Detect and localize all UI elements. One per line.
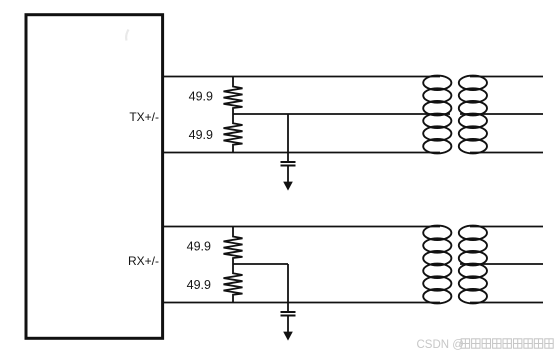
- resistor R4 49.9: [224, 264, 243, 303]
- wire RX junction: [233, 263, 288, 265]
- svg-text:49.9: 49.9: [187, 278, 211, 292]
- resistor R3 49.9: [224, 227, 243, 265]
- transformer T2 primary winding: [423, 226, 451, 304]
- svg-text:RX+/-: RX+/-: [128, 254, 159, 268]
- svg-text:49.9: 49.9: [189, 128, 213, 142]
- ground arrow (TX): [283, 167, 293, 191]
- transformer T1 primary winding: [423, 76, 451, 154]
- wire TX+ (top): [163, 76, 440, 78]
- resistor R2 49.9: [224, 114, 243, 153]
- wire junction to capacitor C2: [287, 264, 289, 311]
- svg-text:49.9: 49.9: [187, 239, 211, 253]
- svg-text:CSDN @: CSDN @: [417, 339, 464, 351]
- transformer T1 secondary winding: [459, 76, 487, 154]
- capacitor C1: [281, 162, 296, 166]
- wire T2 secondary center tap: [460, 263, 543, 265]
- wire T2 secondary bottom: [470, 302, 543, 304]
- wire RX- (bottom): [163, 302, 440, 304]
- faint watermark smudge: [126, 30, 128, 41]
- transformer T2 secondary winding: [459, 226, 487, 304]
- wire TX- (bottom): [163, 152, 440, 154]
- wire T1 secondary bottom: [470, 152, 543, 154]
- wire T2 secondary top: [470, 226, 543, 228]
- IC U1 (PHY): [26, 15, 163, 339]
- ground arrow (RX): [283, 317, 293, 341]
- wire TX center tap: [233, 113, 450, 115]
- watermark: [417, 339, 554, 351]
- wire T1 secondary center tap: [460, 113, 543, 115]
- wire T1 secondary top: [470, 76, 543, 78]
- resistor R1 49.9: [224, 77, 243, 115]
- wire junction to capacitor C1: [287, 114, 289, 161]
- svg-text:49.9: 49.9: [189, 90, 213, 104]
- capacitor C2: [281, 312, 296, 316]
- wire RX+ (top): [163, 226, 440, 228]
- svg-text:TX+/-: TX+/-: [129, 110, 159, 124]
